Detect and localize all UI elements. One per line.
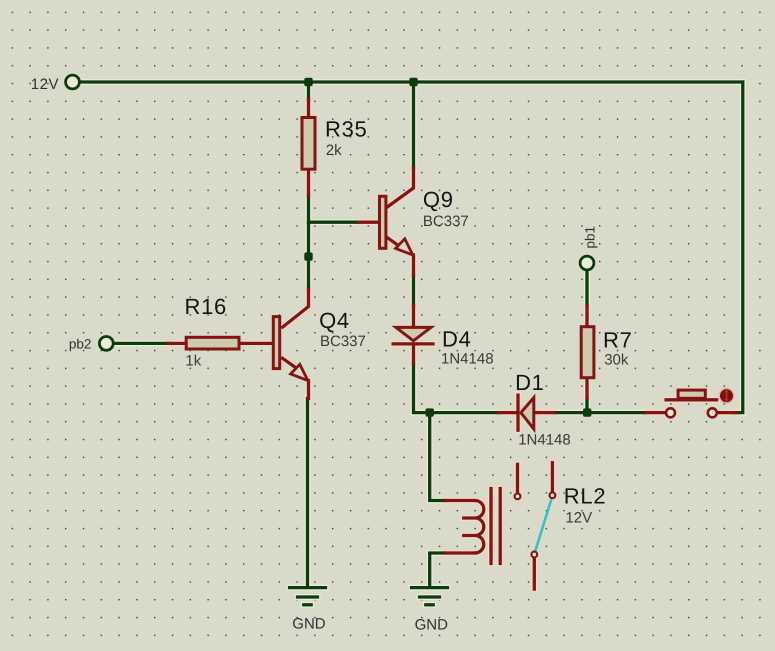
resistor R7 body xyxy=(581,327,594,378)
resistor R35 body xyxy=(302,118,315,170)
svg-text:pb2: pb2 xyxy=(69,336,92,351)
wire halos xyxy=(81,82,743,605)
svg-text:12V: 12V xyxy=(565,510,592,527)
diode D4 triangle xyxy=(396,327,431,340)
svg-text:R35: R35 xyxy=(325,117,367,142)
transistor Q4 emitter arrow xyxy=(291,364,308,380)
green wires xyxy=(81,82,743,605)
svg-text:RL2: RL2 xyxy=(564,483,606,508)
relay contact circle left xyxy=(515,493,521,499)
push button actuator xyxy=(678,390,705,398)
svg-text:12V: 12V xyxy=(31,76,59,93)
junction R7 node xyxy=(583,408,591,416)
svg-text:GND: GND xyxy=(415,616,449,633)
terminal 12V xyxy=(66,75,80,89)
pin halos xyxy=(168,100,736,589)
svg-text:Q4: Q4 xyxy=(319,308,350,333)
svg-text:1N4148: 1N4148 xyxy=(518,432,571,449)
svg-text:BC337: BC337 xyxy=(423,213,469,230)
svg-text:1k: 1k xyxy=(185,353,201,370)
junction top rail at R35 xyxy=(304,78,312,86)
svg-text:R7: R7 xyxy=(603,328,633,353)
svg-text:Q9: Q9 xyxy=(423,187,454,212)
svg-text:1N4148: 1N4148 xyxy=(441,351,494,368)
relay contact circle bottom xyxy=(531,552,537,558)
push button actuate marker xyxy=(719,388,734,403)
svg-text:2k: 2k xyxy=(326,142,342,159)
junction relay branch node xyxy=(426,408,434,416)
transistor Q4 body bar xyxy=(273,317,279,369)
svg-text:D4: D4 xyxy=(442,326,472,351)
relay contact circle right xyxy=(550,492,556,498)
diode D1 triangle xyxy=(521,398,534,429)
transistor Q9 emitter arrow xyxy=(396,239,413,255)
terminal pb1 xyxy=(580,256,594,270)
svg-text:pb1: pb1 xyxy=(583,226,598,249)
red pins xyxy=(168,100,736,589)
transistor Q9 body bar xyxy=(380,196,386,248)
svg-text:R16: R16 xyxy=(185,294,227,319)
svg-text:D1: D1 xyxy=(515,370,545,395)
svg-text:BC337: BC337 xyxy=(320,333,366,350)
svg-text:30k: 30k xyxy=(604,352,629,369)
junction Q9 base node xyxy=(304,252,312,260)
relay movable contact (cyan) xyxy=(535,500,551,552)
push button right contact ring xyxy=(708,408,717,417)
svg-text:GND: GND xyxy=(292,615,326,632)
push button left contact ring xyxy=(666,408,675,417)
terminal pb2 xyxy=(99,337,113,351)
resistor R16 body xyxy=(186,337,239,349)
junction top rail at Q9 collector xyxy=(409,78,417,86)
